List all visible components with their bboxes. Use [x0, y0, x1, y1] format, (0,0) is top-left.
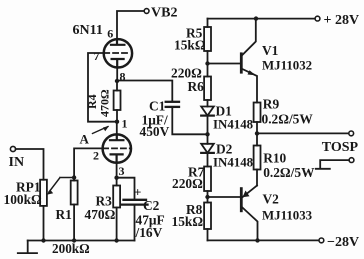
ground symbol — [18, 241, 37, 254]
top rail to +28V — [208, 18, 316, 20]
svg-text:6: 6 — [107, 27, 113, 41]
ground rail (left bottom) — [28, 240, 135, 242]
resistor R7 — [204, 167, 211, 192]
RP1 wiper arrow — [49, 178, 74, 193]
svg-text:0.2Ω/5W: 0.2Ω/5W — [263, 165, 315, 180]
tube U1a envelope (top triode) — [104, 39, 132, 67]
svg-text:3: 3 — [119, 164, 125, 178]
svg-text:R6: R6 — [188, 79, 205, 94]
wire: pin1 lead up to node 1 — [116, 122, 118, 135]
potentiometer RP1 — [40, 180, 47, 206]
svg-text:100kΩ: 100kΩ — [4, 192, 43, 207]
rail junction dots — [41, 238, 45, 242]
svg-text:200kΩ: 200kΩ — [52, 241, 90, 256]
terminal -28V — [319, 238, 324, 243]
node R5/R6 junction — [205, 61, 209, 65]
svg-text:7: 7 — [94, 49, 100, 63]
node 3 junction — [114, 176, 118, 180]
svg-text:C1: C1 — [149, 99, 165, 114]
terminal IN — [10, 146, 15, 151]
svg-text:IN: IN — [9, 155, 25, 170]
svg-text:V1: V1 — [262, 43, 278, 58]
svg-text:MJ11032: MJ11032 — [262, 59, 312, 73]
bottom rail junction — [255, 238, 259, 242]
wire: IN to RP1 top — [16, 149, 44, 180]
bottom rail to -28V — [208, 239, 320, 241]
svg-text:V2: V2 — [263, 192, 280, 207]
capacitor C1 — [166, 101, 179, 103]
wire: node 8 to C1 — [117, 81, 172, 102]
tube U1b anode plate — [110, 135, 123, 141]
resistor R1 — [73, 178, 75, 181]
svg-text:A: A — [80, 132, 90, 147]
svg-text:TOSP: TOSP — [322, 140, 359, 155]
wire: node3 to C2 — [117, 178, 135, 199]
node diode mid junction — [205, 132, 209, 136]
svg-text:15kΩ: 15kΩ — [174, 38, 206, 53]
terminal VB2 — [144, 9, 149, 14]
resistor R9 — [254, 103, 261, 123]
svg-text:450V: 450V — [140, 124, 170, 139]
svg-text:2: 2 — [93, 149, 99, 163]
svg-text:220Ω: 220Ω — [172, 176, 203, 191]
tube U1a grid (dashed) — [104, 52, 129, 54]
wire: output node to TOSP — [257, 132, 349, 134]
wire: grid pin7 to node 1 (left box) — [88, 53, 115, 122]
svg-text:6N11: 6N11 — [73, 23, 103, 38]
wire: cathode pin8 down to node 8 — [116, 67, 118, 80]
resistor R5 — [207, 19, 209, 27]
svg-text:/16V: /16V — [135, 225, 163, 240]
output node junction — [255, 131, 259, 135]
tube U1b grid (dashed) — [103, 147, 130, 149]
wire: cathode pin3 down — [116, 163, 118, 178]
resistor R3 — [116, 178, 118, 186]
wire: base V1 — [208, 63, 241, 65]
resistor R4 — [116, 81, 118, 91]
node 8 junction — [115, 79, 119, 83]
node R7/R8 junction — [205, 195, 209, 199]
svg-text:C2: C2 — [143, 198, 160, 213]
terminal TOSP — [349, 131, 354, 136]
svg-text:IN4148: IN4148 — [213, 118, 254, 132]
diode D1 — [201, 107, 214, 116]
svg-text:D1: D1 — [216, 104, 232, 119]
tube U1b envelope (bottom triode) — [103, 134, 131, 162]
terminal TOSP return — [349, 158, 354, 163]
svg-text:470Ω: 470Ω — [98, 89, 112, 117]
tube U1a anode plate — [111, 40, 124, 45]
svg-text:IN4148: IN4148 — [213, 156, 254, 170]
diode D2 — [207, 134, 209, 144]
svg-text:+: + — [134, 185, 141, 200]
grid junction node — [72, 175, 76, 179]
svg-text:15kΩ: 15kΩ — [172, 214, 204, 229]
svg-text:1: 1 — [122, 117, 128, 131]
resistor R10 — [256, 133, 258, 145]
svg-text:D2: D2 — [216, 142, 233, 157]
svg-text:MJ11033: MJ11033 — [262, 209, 312, 223]
tube U1b cathode — [111, 154, 123, 162]
speaker return chassis symbol — [316, 160, 349, 169]
top rail junction — [254, 16, 258, 20]
wire: base V2 — [208, 196, 241, 198]
resistor R8 — [207, 197, 209, 203]
resistor R6 — [207, 64, 209, 77]
svg-text:VB2: VB2 — [151, 6, 177, 21]
svg-text:R10: R10 — [263, 151, 286, 166]
svg-text:0.2Ω/5W: 0.2Ω/5W — [262, 112, 314, 127]
svg-text:R9: R9 — [263, 97, 280, 112]
node 1 junction — [115, 120, 119, 124]
transistor V2 (MJ11033) — [240, 189, 243, 211]
transistor V1 (MJ11032) — [240, 54, 243, 72]
wire: junction up to grid pin 2 — [74, 148, 103, 177]
tube U1a cathode — [112, 59, 124, 67]
svg-text:−28V: −28V — [327, 235, 359, 250]
wire: tube top anode lead to VB2 — [117, 11, 144, 40]
svg-text:470Ω: 470Ω — [85, 207, 116, 222]
svg-text:R1: R1 — [56, 207, 72, 222]
terminal +28V — [315, 16, 320, 21]
svg-text:+ 28V: + 28V — [324, 13, 360, 28]
capacitor C2 (electrolytic) — [124, 199, 147, 201]
